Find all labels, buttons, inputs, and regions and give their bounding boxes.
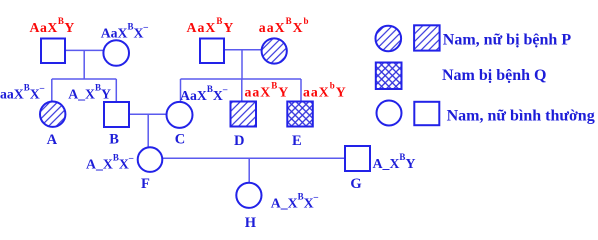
svg-text:AaXBX–: AaXBX–: [101, 22, 149, 41]
legend square affected Q: [376, 63, 402, 90]
legend circle normal: [377, 101, 402, 126]
female I-4 circle affected P: [262, 38, 287, 63]
svg-text:A: A: [47, 132, 58, 148]
male D square affected P: [231, 102, 257, 127]
svg-text:Nam, nữ bị bệnh P: Nam, nữ bị bệnh P: [443, 32, 572, 49]
legend circle affected P: [376, 26, 402, 52]
svg-text:AaXBY: AaXBY: [30, 16, 75, 35]
svg-text:A_XBX–: A_XBX–: [86, 153, 134, 172]
svg-text:AaXBY: AaXBY: [187, 16, 235, 35]
wire: descent drop from couple 2: [241, 50, 243, 79]
wire: sibship bar family 2: [181, 78, 302, 80]
svg-text:A_XBY: A_XBY: [68, 83, 111, 102]
wire: marriage line B to C: [129, 113, 167, 115]
wire: descent drop from couple 1: [83, 50, 85, 79]
svg-text:E: E: [292, 133, 302, 149]
svg-text:A_XBY: A_XBY: [373, 152, 416, 171]
svg-text:B: B: [109, 131, 119, 147]
male E square affected Q: [287, 102, 313, 127]
legend square normal: [414, 102, 439, 125]
svg-text:F: F: [141, 176, 150, 192]
wire: marriage line I-3 to I-4: [224, 49, 262, 51]
female H circle: [236, 183, 261, 208]
wire: drop to D: [241, 79, 243, 102]
male I-3 square: [200, 39, 224, 64]
wire: marriage line I-1 to I-2: [65, 49, 104, 51]
svg-text:G: G: [350, 176, 361, 192]
female C circle: [167, 102, 193, 128]
legend square affected P: [414, 25, 440, 50]
svg-text:aaXBXb: aaXBXb: [259, 16, 310, 35]
wire: sibship bar family 1: [52, 78, 117, 80]
female F circle: [138, 147, 163, 172]
wire: marriage line F to G: [162, 157, 345, 159]
male I-1 square: [41, 39, 65, 64]
svg-text:H: H: [245, 215, 257, 231]
svg-text:aaXbY: aaXbY: [303, 81, 347, 100]
wire: drop to H: [248, 158, 250, 183]
svg-text:D: D: [234, 133, 244, 149]
female A circle affected P: [40, 102, 65, 127]
svg-text:aaXBX–: aaXBX–: [0, 83, 45, 102]
wire: drop to C: [180, 79, 182, 102]
wire: drop to E: [300, 79, 302, 102]
svg-text:AaXBX–: AaXBX–: [180, 84, 228, 103]
male B square: [104, 102, 129, 127]
wire: drop to A: [51, 79, 53, 102]
svg-text:C: C: [175, 132, 185, 148]
wire: drop to B: [115, 79, 117, 102]
svg-text:Nam, nữ bình thường: Nam, nữ bình thường: [447, 108, 595, 125]
male G square: [345, 146, 370, 171]
female I-2 circle: [103, 40, 129, 66]
wire: drop to F: [147, 114, 149, 148]
svg-text:aaXBY: aaXBY: [245, 81, 290, 100]
svg-text:Nam bị bệnh Q: Nam bị bệnh Q: [442, 67, 546, 84]
svg-text:A_XBX–: A_XBX–: [271, 192, 319, 211]
